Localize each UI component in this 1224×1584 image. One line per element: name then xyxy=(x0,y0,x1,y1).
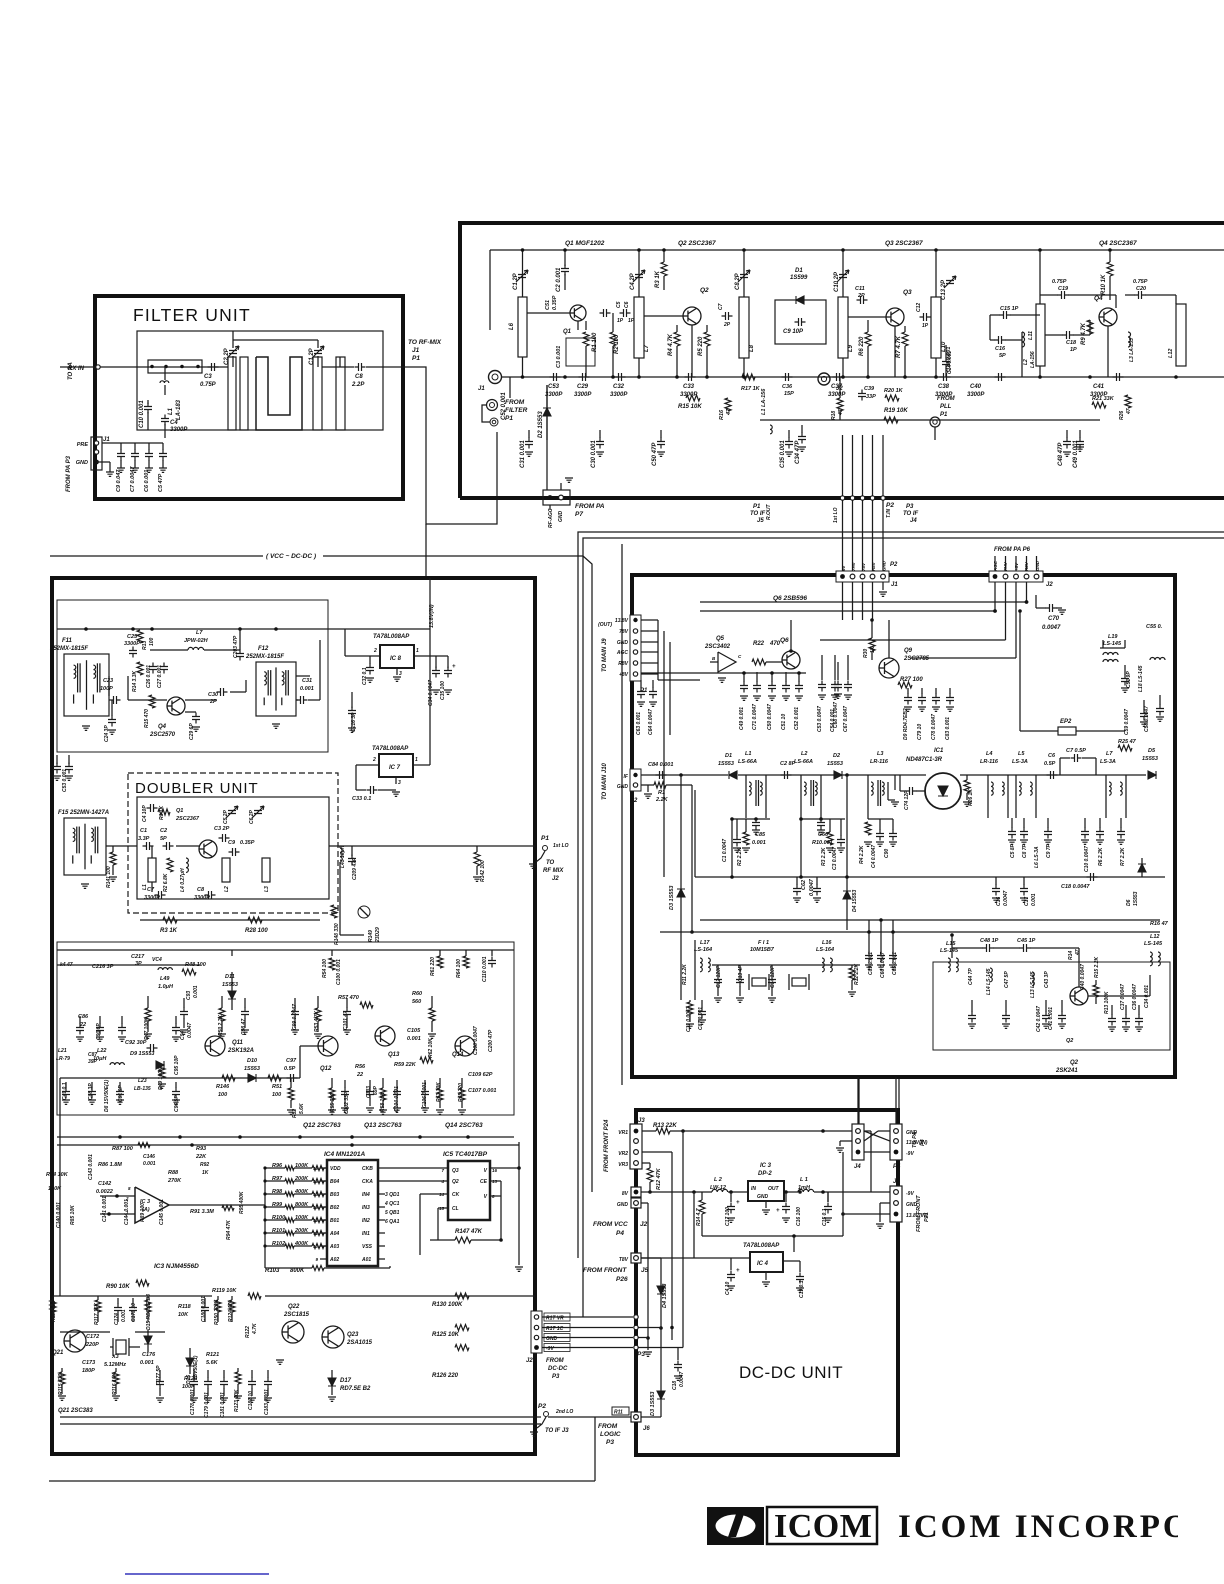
svg-text:1P: 1P xyxy=(617,318,624,324)
capacitor C1 0.0047 xyxy=(736,819,738,836)
svg-text:0.35P: 0.35P xyxy=(552,295,558,310)
svg-text:C4 10: C4 10 xyxy=(725,1281,731,1295)
svg-text:C15 1P: C15 1P xyxy=(1000,306,1019,312)
svg-text:R122: R122 xyxy=(245,1326,251,1338)
capacitor C70 0.0047 xyxy=(1035,595,1037,608)
svg-text:1S553: 1S553 xyxy=(244,1066,260,1072)
svg-text:FROM: FROM xyxy=(546,1358,565,1364)
svg-text:R142 100: R142 100 xyxy=(480,860,486,882)
svg-text:C145 0.001: C145 0.001 xyxy=(159,1199,165,1225)
svg-text:RF MIX: RF MIX xyxy=(543,868,564,874)
svg-text:7HV: 7HV xyxy=(851,561,856,571)
svg-text:+: + xyxy=(776,1208,780,1214)
component EP2 xyxy=(1058,727,1076,735)
crossover wires J4-P4 xyxy=(864,1131,890,1141)
svg-text:C32 0.1: C32 0.1 xyxy=(362,667,368,685)
svg-text:D3 1S553: D3 1S553 xyxy=(650,1392,656,1416)
svg-text:13.8V(IN): 13.8V(IN) xyxy=(429,604,435,628)
svg-text:P1: P1 xyxy=(412,355,420,362)
sub row wire L3 xyxy=(814,818,816,820)
wire channel x578 xyxy=(578,532,618,1258)
svg-text:2: 2 xyxy=(373,648,377,654)
connector TO MAIN J10 xyxy=(630,769,641,791)
svg-text:C52 0.001: C52 0.001 xyxy=(794,707,800,730)
FILTER UNIT box xyxy=(95,296,403,499)
svg-text:C146: C146 xyxy=(143,1154,155,1160)
svg-text:R146: R146 xyxy=(216,1084,230,1090)
svg-text:L7: L7 xyxy=(196,630,203,636)
svg-text:P4: P4 xyxy=(920,1139,926,1146)
svg-text:D1: D1 xyxy=(795,268,803,274)
svg-text:-9V: -9V xyxy=(906,1191,914,1197)
svg-text:J2: J2 xyxy=(552,876,559,882)
capacitor C4 3300P xyxy=(161,415,169,426)
svg-text:L5: L5 xyxy=(1018,751,1025,757)
svg-text:C9 10P: C9 10P xyxy=(783,329,804,335)
svg-text:C48 1P: C48 1P xyxy=(980,938,999,944)
resistor R25 47 xyxy=(1118,745,1132,751)
opamp IC3 NJM4556D xyxy=(135,1187,169,1223)
svg-text:22: 22 xyxy=(356,1072,363,1078)
svg-text:C11: C11 xyxy=(855,286,865,292)
svg-text:IC5 TC4017BP: IC5 TC4017BP xyxy=(443,1151,488,1158)
svg-text:C48 47P: C48 47P xyxy=(1058,442,1064,466)
diode D4 1S553 xyxy=(660,1258,662,1328)
svg-text:FROM: FROM xyxy=(937,396,956,402)
resistor R5 220 xyxy=(704,332,710,346)
capacitor C34 47P xyxy=(801,425,803,433)
svg-text:R8V: R8V xyxy=(618,661,628,667)
svg-text:J2: J2 xyxy=(1046,582,1053,588)
wire doubler out to P1 xyxy=(329,845,535,847)
capacitor C7 0.5P xyxy=(1071,754,1082,762)
svg-text:R11 2.2K: R11 2.2K xyxy=(682,964,688,985)
capacitor C40 3300P xyxy=(995,373,1006,381)
svg-text:R8V: R8V xyxy=(1024,561,1029,571)
svg-text:2P: 2P xyxy=(723,322,731,328)
wire AGC vertical xyxy=(546,385,548,490)
svg-text:2.2K: 2.2K xyxy=(655,797,669,803)
wire long LO bus 2 xyxy=(624,537,1224,539)
svg-text:1S553: 1S553 xyxy=(827,761,843,767)
wire doubler net vertical xyxy=(339,880,341,935)
connector FROM PLL P1 xyxy=(930,417,940,427)
svg-text:C14 0.001: C14 0.001 xyxy=(947,351,953,374)
svg-text:C70: C70 xyxy=(1048,616,1060,622)
svg-text:5P: 5P xyxy=(999,353,1006,359)
caps C26 C27 0.001 xyxy=(149,663,157,674)
svg-text:C6: C6 xyxy=(1048,753,1056,759)
svg-text:Q23: Q23 xyxy=(347,1332,359,1338)
svg-text:C4: C4 xyxy=(170,420,178,426)
capacitor C203 47P xyxy=(236,650,244,661)
ground J1 xyxy=(97,461,111,463)
svg-text:R147 47K: R147 47K xyxy=(455,1229,483,1235)
svg-text:IN2: IN2 xyxy=(362,1218,370,1224)
wire 13.8V in xyxy=(429,578,431,656)
svg-text:C7 0.5P: C7 0.5P xyxy=(1066,748,1086,754)
svg-text:3300P: 3300P xyxy=(124,641,140,647)
resistor R6 220 xyxy=(865,332,871,346)
node RX IN pin xyxy=(96,365,100,369)
blue mark bottom xyxy=(125,1573,269,1575)
svg-text:C9 0.047: C9 0.047 xyxy=(116,469,122,492)
svg-text:2SC2785: 2SC2785 xyxy=(903,656,930,662)
svg-text:J2: J2 xyxy=(836,386,843,392)
svg-text:R12 47K: R12 47K xyxy=(656,1167,662,1190)
svg-text:0.0047: 0.0047 xyxy=(809,878,815,896)
svg-text:C51 10: C51 10 xyxy=(781,714,787,730)
svg-text:L18 LS-145: L18 LS-145 xyxy=(1138,665,1144,692)
svg-text:L7: L7 xyxy=(1106,751,1113,757)
svg-text:C3: C3 xyxy=(204,374,212,380)
svg-text:3300P: 3300P xyxy=(828,392,846,398)
transistor Q9 2SC2785 xyxy=(879,658,899,678)
svg-text:15P: 15P xyxy=(784,391,794,397)
capacitor C18 0.0047 xyxy=(677,1348,679,1361)
svg-text:C5: C5 xyxy=(616,301,622,308)
caps C53 C54 C67 xyxy=(821,655,823,680)
svg-text:3 QD1: 3 QD1 xyxy=(385,1192,400,1198)
capacitor C19 0.75P xyxy=(1058,291,1069,299)
svg-text:C13 2P: C13 2P xyxy=(941,279,947,300)
svg-text:GND: GND xyxy=(617,1202,629,1208)
svg-text:C71 0.0047: C71 0.0047 xyxy=(752,704,758,730)
svg-text:P1: P1 xyxy=(541,835,549,842)
svg-text:3300P: 3300P xyxy=(574,392,592,398)
svg-text:A04: A04 xyxy=(329,1231,339,1237)
svg-text:J2: J2 xyxy=(640,1221,648,1228)
pin 8V xyxy=(631,1187,641,1197)
svg-text:LS-66A: LS-66A xyxy=(738,759,757,765)
svg-text:R14 4.7: R14 4.7 xyxy=(696,1208,702,1226)
trimmer C1 2P xyxy=(516,270,528,282)
svg-text:D4 1S553: D4 1S553 xyxy=(852,890,858,912)
svg-text:2SA1015: 2SA1015 xyxy=(346,1340,373,1346)
svg-text:Q3 2SC2367: Q3 2SC2367 xyxy=(885,240,923,247)
svg-text:C42 0.0047: C42 0.0047 xyxy=(1036,1006,1042,1032)
transistor Q14 xyxy=(455,1036,475,1056)
svg-text:+: + xyxy=(736,1200,740,1206)
svg-text:47: 47 xyxy=(1075,949,1081,956)
svg-text:+8V: +8V xyxy=(1014,562,1019,571)
wire IF strip rail xyxy=(641,774,728,776)
svg-text:1S553: 1S553 xyxy=(718,761,734,767)
resistor R1 100 xyxy=(585,321,587,330)
rail junction dots xyxy=(521,375,525,379)
svg-text:C55 0.: C55 0. xyxy=(1146,624,1163,630)
capacitor C29 3300P xyxy=(579,373,590,381)
resistor R12 47K xyxy=(647,1168,653,1182)
svg-text:R1 100: R1 100 xyxy=(592,332,598,352)
svg-text:C97: C97 xyxy=(286,1058,297,1064)
wire 8V rail xyxy=(641,1191,708,1193)
svg-text:C83 0.001: C83 0.001 xyxy=(945,717,951,740)
svg-text:0.75P: 0.75P xyxy=(200,382,217,388)
svg-text:R84 10K: R84 10K xyxy=(46,1172,69,1178)
connector J1 on top border xyxy=(836,571,889,582)
svg-text:C92 30P: C92 30P xyxy=(125,1040,147,1046)
svg-text:D6: D6 xyxy=(1126,899,1132,906)
resistor R19 10K xyxy=(884,417,898,423)
svg-text:F11: F11 xyxy=(62,638,73,644)
wire inner-bottom xyxy=(339,357,341,367)
svg-text:R12 2.2K: R12 2.2K xyxy=(854,963,860,985)
svg-text:Q2: Q2 xyxy=(700,287,709,294)
svg-text:IC3 NJM4556D: IC3 NJM4556D xyxy=(154,1263,199,1270)
svg-text:C47 5P: C47 5P xyxy=(1004,971,1010,988)
svg-text:R13 100K: R13 100K xyxy=(1104,991,1110,1014)
svg-text:VR3: VR3 xyxy=(618,1162,628,1168)
transformer L4 LR-116 xyxy=(987,775,989,818)
svg-text:C14 120P: C14 120P xyxy=(770,965,776,988)
capacitor C38 3300P xyxy=(940,373,951,381)
svg-text:2SK241: 2SK241 xyxy=(1055,1068,1078,1074)
svg-text:R121: R121 xyxy=(206,1352,219,1358)
svg-text:3300P: 3300P xyxy=(545,392,563,398)
svg-text:LOGIC: LOGIC xyxy=(600,1431,621,1438)
svg-text:C179 0.001: C179 0.001 xyxy=(204,1392,210,1418)
trimmer C1 2P xyxy=(312,346,324,358)
svg-text:C29 6P: C29 6P xyxy=(189,723,195,740)
svg-text:IC 4: IC 4 xyxy=(757,1261,769,1267)
inner box glyph stubs xyxy=(971,1000,973,1012)
svg-text:IN4: IN4 xyxy=(362,1192,370,1198)
svg-text:P3: P3 xyxy=(606,1439,614,1446)
svg-text:1S599: 1S599 xyxy=(790,275,808,281)
svg-text:C52 47P: C52 47P xyxy=(50,770,56,790)
capacitor C17 100 xyxy=(730,1192,732,1202)
svg-text:Q9: Q9 xyxy=(904,648,913,654)
wire J4 vertical xyxy=(857,1077,859,1124)
svg-text:R2 6.8K: R2 6.8K xyxy=(163,873,169,892)
caps C5 C6 1P xyxy=(600,309,611,317)
svg-text:C29: C29 xyxy=(577,384,589,390)
svg-text:Q21 2SC383: Q21 2SC383 xyxy=(58,1408,93,1414)
wire C48 C45 row xyxy=(952,947,983,949)
transistor Q2 xyxy=(683,307,701,325)
svg-text:CL: CL xyxy=(452,1206,459,1212)
svg-text:R60: R60 xyxy=(412,991,422,997)
capacitor C53 3300P xyxy=(550,373,561,381)
svg-text:R19 10K: R19 10K xyxy=(884,408,908,414)
wire lower rail right box xyxy=(700,919,1160,921)
svg-text:DOUBLER UNIT: DOUBLER UNIT xyxy=(135,780,259,797)
doubler inner box xyxy=(137,797,329,899)
svg-text:L12: L12 xyxy=(1150,934,1159,940)
svg-text:C216 3P: C216 3P xyxy=(92,964,114,970)
resistor R3 1K doubler xyxy=(163,917,177,923)
wires from J1 pins xyxy=(842,582,844,620)
resistor R28 100 xyxy=(248,917,262,923)
DC-DC unit box xyxy=(636,1110,898,1455)
svg-text:X3: X3 xyxy=(111,1354,119,1360)
svg-text:C7: C7 xyxy=(147,887,155,893)
svg-text:P3: P3 xyxy=(906,504,914,510)
svg-text:3300P: 3300P xyxy=(967,392,985,398)
svg-text:C52 0.001: C52 0.001 xyxy=(501,392,507,420)
svg-text:-9V: -9V xyxy=(906,1151,914,1157)
resistor R1 2.2K xyxy=(641,784,654,786)
svg-text:J2: J2 xyxy=(526,1358,533,1364)
svg-text:C34 47P: C34 47P xyxy=(795,440,801,464)
svg-text:Q13 2SC763: Q13 2SC763 xyxy=(364,1122,402,1129)
svg-text:B01: B01 xyxy=(330,1218,339,1224)
svg-text:P3: P3 xyxy=(552,1374,560,1380)
svg-text:C51 9P: C51 9P xyxy=(1126,671,1132,688)
svg-text:L3: L3 xyxy=(264,886,270,892)
svg-text:C49 0.001: C49 0.001 xyxy=(1073,440,1079,468)
svg-text:IC 8: IC 8 xyxy=(390,656,402,662)
svg-text:0.0047: 0.0047 xyxy=(1042,625,1061,631)
svg-text:R89 100: R89 100 xyxy=(140,1203,146,1222)
resistor R142 100 xyxy=(474,852,480,866)
svg-text:470: 470 xyxy=(769,641,781,647)
svg-text:C91 6P: C91 6P xyxy=(118,1085,124,1102)
svg-text:C180 0.001: C180 0.001 xyxy=(201,1296,207,1322)
svg-text:R86 1.8M: R86 1.8M xyxy=(98,1162,122,1168)
svg-text:C34 0.0047: C34 0.0047 xyxy=(428,680,434,706)
svg-text:C109 62P: C109 62P xyxy=(468,1072,493,1078)
capacitor C48 1P xyxy=(983,944,994,952)
svg-text:L11: L11 xyxy=(1028,331,1034,340)
svg-text:C16 100: C16 100 xyxy=(796,1207,802,1226)
wire J1 wires xyxy=(870,1131,872,1192)
svg-text:C175 10: C175 10 xyxy=(131,1303,137,1322)
svg-text:VC4: VC4 xyxy=(152,957,162,963)
svg-text:FROM PA: FROM PA xyxy=(575,503,605,510)
svg-text:C9: C9 xyxy=(228,840,236,846)
svg-text:-9V: -9V xyxy=(546,1346,554,1352)
svg-text:L17: L17 xyxy=(700,940,710,946)
svg-text:TO PA: TO PA xyxy=(912,1132,918,1148)
svg-text:J1: J1 xyxy=(412,347,420,354)
svg-text:R14 3.3K: R14 3.3K xyxy=(132,670,138,692)
capacitor C9 10P xyxy=(795,318,806,326)
coils right-bottom xyxy=(990,968,992,982)
transformer L1 LS-66A xyxy=(745,775,747,818)
svg-text:C9 7P: C9 7P xyxy=(1046,843,1052,858)
svg-text:Q11: Q11 xyxy=(232,1040,244,1046)
pins P3 bundle xyxy=(634,1315,638,1319)
svg-text:C62: C62 xyxy=(801,880,807,890)
svg-text:D9 RD4.7EB2: D9 RD4.7EB2 xyxy=(903,708,909,740)
svg-text:DC-DC: DC-DC xyxy=(548,1366,568,1372)
stage Q3 xyxy=(838,297,848,358)
svg-text:R91 3.3M: R91 3.3M xyxy=(190,1209,214,1215)
svg-text:R21 33K: R21 33K xyxy=(1092,396,1115,402)
svg-text:C45 1P: C45 1P xyxy=(1017,938,1036,944)
svg-text:C74 12P: C74 12P xyxy=(904,790,910,810)
svg-text:2SC1815: 2SC1815 xyxy=(283,1312,310,1318)
transistor Q11 2SK192A xyxy=(205,1036,225,1056)
ICOM logo mark xyxy=(708,1508,763,1544)
svg-text:C7: C7 xyxy=(718,303,724,310)
resistor R10 1K xyxy=(1107,262,1113,276)
svg-text:R118: R118 xyxy=(178,1304,192,1310)
svg-text:C40 0.0047: C40 0.0047 xyxy=(1080,964,1086,990)
capacitor C90 xyxy=(892,819,894,830)
wire mid rail 3300P row xyxy=(502,376,1224,378)
svg-text:P4: P4 xyxy=(616,1230,624,1237)
capacitor C29 6P xyxy=(185,711,196,713)
svg-text:Q2: Q2 xyxy=(1066,1038,1073,1044)
svg-text:R88: R88 xyxy=(168,1170,179,1176)
wire C16 L2 link xyxy=(990,339,995,341)
diode D16 glyph xyxy=(189,1348,191,1358)
svg-text:J1: J1 xyxy=(891,582,898,588)
svg-text:J4: J4 xyxy=(854,1164,861,1170)
svg-text:L15: L15 xyxy=(946,941,956,947)
svg-text:FILTER: FILTER xyxy=(505,407,528,414)
diode D2 1S553 xyxy=(546,385,548,440)
wire left box to DCDC P3 bundle xyxy=(541,1316,633,1318)
svg-text:DP-2: DP-2 xyxy=(758,1171,772,1177)
svg-text:C36: C36 xyxy=(782,384,793,390)
svg-text:C4 10P: C4 10P xyxy=(142,805,148,822)
svg-text:P2: P2 xyxy=(886,502,894,509)
svg-text:2SC2367: 2SC2367 xyxy=(175,816,200,822)
svg-text:R27 100: R27 100 xyxy=(900,677,923,683)
svg-text:LS-3A: LS-3A xyxy=(1100,759,1116,765)
svg-text:1: 1 xyxy=(416,648,419,654)
svg-text:Q13: Q13 xyxy=(388,1052,400,1058)
svg-text:0.001: 0.001 xyxy=(143,1161,156,1167)
connector J3 xyxy=(630,1124,642,1169)
svg-text:22K: 22K xyxy=(195,1154,207,1160)
capacitor C16 5P xyxy=(995,336,1006,344)
svg-text:R90 10K: R90 10K xyxy=(106,1284,130,1290)
svg-text:R6 220: R6 220 xyxy=(859,336,865,356)
coil L3 LA-233 xyxy=(1128,332,1131,347)
svg-text:2SC3402: 2SC3402 xyxy=(704,644,731,650)
svg-text:C20: C20 xyxy=(1136,286,1146,292)
svg-text:LR-79: LR-79 xyxy=(56,1056,70,1062)
svg-text:Q4: Q4 xyxy=(1094,295,1103,302)
svg-text:10M15B7: 10M15B7 xyxy=(750,947,775,953)
svg-text:R22: R22 xyxy=(753,641,765,647)
svg-text:J3: J3 xyxy=(638,1118,645,1124)
svg-text:C19: C19 xyxy=(1058,286,1069,292)
svg-text:C1 0.0047: C1 0.0047 xyxy=(722,839,728,862)
svg-text:P4: P4 xyxy=(893,1164,901,1170)
wire Q2 drain xyxy=(1088,995,1150,997)
pin J5 18V xyxy=(631,1253,641,1263)
svg-text:C8: C8 xyxy=(197,887,205,893)
svg-text:C3 0.001: C3 0.001 xyxy=(556,346,562,368)
svg-text:LB-135: LB-135 xyxy=(134,1086,151,1092)
inductor L7 xyxy=(634,297,644,358)
svg-text:P2: P2 xyxy=(890,562,898,568)
svg-text:J6: J6 xyxy=(643,1426,650,1432)
svg-text:R14: R14 xyxy=(1068,951,1074,960)
resistor R17 1K xyxy=(742,374,755,380)
transformer L2 LS-66A xyxy=(800,775,802,818)
svg-text:ICOM INCORPORATED: ICOM INCORPORATED xyxy=(898,1509,1224,1545)
resistor R9 4.7K xyxy=(1087,320,1093,334)
IC5 bus verticals xyxy=(500,1181,502,1240)
svg-text:PRE: PRE xyxy=(77,442,89,448)
svg-text:D8 1SV50E(1): D8 1SV50E(1) xyxy=(104,1079,110,1112)
svg-text:0.0022: 0.0022 xyxy=(96,1189,113,1195)
svg-text:FROM PA P6: FROM PA P6 xyxy=(994,547,1031,553)
wire loop bottom xyxy=(702,1235,843,1237)
svg-text:23D29: 23D29 xyxy=(375,927,381,943)
diode D2 1S553 xyxy=(834,771,842,779)
svg-text:TA78L008AP: TA78L008AP xyxy=(373,634,410,640)
wire Q4 collector xyxy=(230,691,246,693)
svg-text:TA78L008AP: TA78L008AP xyxy=(372,746,409,752)
